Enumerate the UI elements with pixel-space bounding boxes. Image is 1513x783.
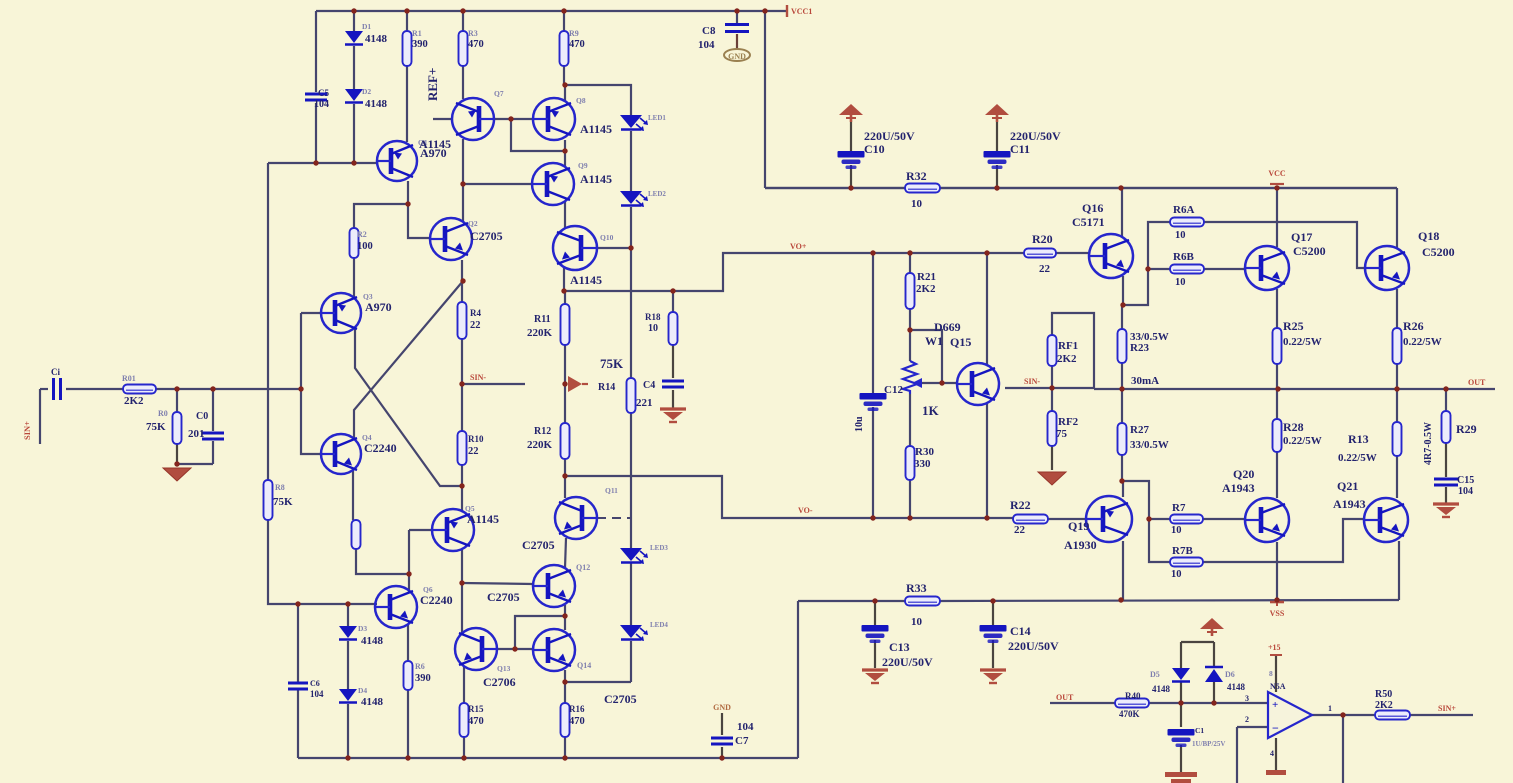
svg-text:4148: 4148 [361,696,384,708]
svg-text:470: 470 [569,39,585,50]
wire VCC rail drop to Q18 [1396,188,1398,248]
svg-text:Q16: Q16 [1082,201,1103,215]
svg-text:C4: C4 [643,380,655,391]
ground bar under C1 [1165,772,1197,777]
svg-text:10u: 10u [854,416,865,432]
svg-text:R4: R4 [470,308,481,318]
wire Q11 collector [564,476,566,498]
wire R30 to VO- rail [909,480,911,518]
svg-text:Q12: Q12 [576,563,590,572]
svg-text:10: 10 [1171,525,1182,536]
wire R22 leads [1048,518,1087,520]
svg-text:221: 221 [636,397,653,409]
ground arrow above diodes D5 D6 [1200,618,1224,636]
wire Q8-Q9 column [564,140,566,167]
resistor RF2 [1048,411,1057,446]
resistor R20 [1024,249,1056,258]
wire R13 leads [1396,389,1398,422]
wire R2 to Q3 [353,258,355,298]
svg-text:220U/50V: 220U/50V [882,655,933,669]
diode D4 [339,689,357,703]
svg-text:220U/50V: 220U/50V [1008,639,1059,653]
svg-text:D5: D5 [1150,670,1160,679]
wire R6 to bottom rail [407,690,409,758]
transistor Q7 [452,98,494,140]
wire output feedback drop [1342,715,1344,783]
potentiometer W1 [903,361,917,394]
svg-text:R15: R15 [468,704,484,714]
svg-text:GND: GND [728,52,746,61]
svg-text:R2: R2 [357,230,367,239]
svg-text:Q10: Q10 [600,233,614,242]
resistor R4 [458,302,467,339]
svg-text:22: 22 [1014,524,1026,536]
svg-text:A1943: A1943 [1222,481,1255,495]
diode D6 reversed [1205,667,1223,682]
wire op-amp inverting input [1237,726,1267,728]
power bar under op-amp pin4 [1266,770,1286,775]
svg-text:C5200: C5200 [1293,244,1326,258]
svg-text:+: + [1272,699,1278,711]
wire R4-R10 column [461,339,463,431]
LED LED4 [620,625,648,641]
wire Q14 emitter to LED column [565,681,631,683]
svg-text:A1943: A1943 [1333,497,1366,511]
wire Q5-Q13 column [461,583,463,633]
junction dots [351,8,356,13]
wire R26 to OUT rail [1396,364,1398,389]
resistor R11 [561,304,570,345]
wire D3-D4 column [347,604,349,626]
wire bottom rail riser [797,601,799,758]
svg-text:C1: C1 [1195,726,1204,735]
LED LED3 [620,548,648,564]
svg-text:R50: R50 [1375,689,1392,700]
transistor Q1 [377,141,417,181]
wire R15 to bottom rail [463,737,465,758]
svg-text:A970: A970 [365,300,392,314]
resistor R27 [1118,423,1127,455]
wire Q17 emitter to R25 [1276,289,1278,328]
wire R11 leads [564,291,566,304]
svg-text:D3: D3 [358,624,367,633]
wire R18-C4 link [672,345,674,378]
svg-text:C8: C8 [702,25,716,37]
svg-text:4148: 4148 [1152,684,1171,694]
svg-text:A1145: A1145 [419,137,451,151]
svg-text:Q21: Q21 [1337,479,1358,493]
svg-text:RF2: RF2 [1058,416,1079,428]
ground flag GND under C8 [724,49,750,61]
wire VO- upper jog [565,476,1013,518]
svg-text:330: 330 [914,458,931,470]
svg-text:75K: 75K [600,356,624,371]
wire C1 to ground bar [1180,745,1182,772]
LED LED1 [620,115,648,131]
svg-text:C14: C14 [1010,624,1031,638]
transistor Q2 [430,218,472,260]
svg-text:VSS: VSS [1270,609,1285,618]
ground under C4 [660,409,686,422]
svg-text:R40: R40 [1125,691,1141,701]
wire Q1 base row [268,162,377,164]
wire D1-D2 column [353,11,355,31]
wire Q5 base link [409,529,432,531]
svg-text:2: 2 [1245,715,1249,724]
svg-text:LED4: LED4 [650,621,668,629]
resistor R10 [458,431,467,465]
svg-text:470: 470 [569,716,585,727]
svg-text:LED3: LED3 [650,544,668,552]
transistor Q14 [533,629,575,671]
wire op-amp +15 stem [1275,655,1277,692]
wire D5 column [1180,642,1182,668]
power arrow above C11 [985,104,1009,122]
capacitor C15 [1434,479,1458,485]
wire left column to C5 [315,11,317,92]
svg-text:1U/BP/25V: 1U/BP/25V [1192,740,1225,748]
svg-text:D1: D1 [362,22,371,31]
svg-text:R14: R14 [598,382,615,393]
resistor R3 [459,31,468,66]
svg-text:OUT: OUT [1468,378,1486,387]
svg-text:C2705: C2705 [604,692,637,706]
svg-text:VO-: VO- [798,506,813,515]
diode D5 [1172,668,1190,682]
LED LED2 [620,191,648,207]
svg-text:C12: C12 [884,384,903,396]
svg-text:R9: R9 [569,29,579,38]
transistor Q17 [1245,246,1289,290]
svg-text:VO+: VO+ [790,242,807,251]
svg-text:390: 390 [415,673,431,684]
svg-text:10: 10 [1175,277,1186,288]
svg-text:75K: 75K [146,421,166,433]
wire R16 leads [564,682,566,703]
svg-text:Q15: Q15 [950,335,971,349]
transistor Q4 [321,434,361,474]
svg-text:Q8: Q8 [576,96,586,105]
op-amp U1 [1268,692,1312,738]
svg-text:R29: R29 [1456,422,1477,436]
transistor Q3 [321,293,361,333]
ground under C14 [980,670,1006,683]
svg-text:Q11: Q11 [605,486,618,495]
svg-text:C10: C10 [864,142,885,156]
wire Q16 emitter jog to R6B row [1122,276,1124,305]
wire Q4 emitter to R5 [352,470,354,520]
wire C15 to ground [1445,487,1447,503]
wire Q20 emitter to VSS rail [1276,542,1278,600]
svg-text:Q9: Q9 [578,161,588,170]
VSS power flag [1270,601,1284,604]
resistor R33 [905,597,940,606]
svg-text:220K: 220K [527,439,553,451]
svg-text:R32: R32 [906,169,927,183]
wire input stub SIN+ [40,388,48,390]
transistor Q21 [1364,498,1408,542]
transistor Q11 [555,497,597,539]
svg-text:VCC1: VCC1 [791,7,812,16]
resistor R50 [1375,711,1410,720]
wire R7B to Q21 base [1203,519,1364,562]
capacitor C13 [862,625,889,643]
resistor R1 [403,31,412,66]
label VCC flag [1270,183,1284,185]
wire Q9 base row [463,183,532,185]
wire C11 column [996,122,998,152]
svg-text:1: 1 [1328,704,1332,713]
resistor R29 [1442,411,1451,443]
resistor R13 [1393,422,1402,456]
wire Q18 emitter to R26 [1396,289,1398,328]
svg-text:Q2: Q2 [468,219,478,228]
wire D6 column [1213,642,1215,667]
svg-text:104: 104 [1458,486,1473,497]
svg-text:LED2: LED2 [648,190,666,198]
wire C13 column [874,601,876,625]
svg-text:R01: R01 [122,374,136,383]
wire R3-Q7-Q2 column [462,139,464,222]
svg-text:SIN+: SIN+ [22,421,32,440]
svg-text:22: 22 [468,446,479,457]
resistor R01 [123,385,156,394]
wire LED column mid [630,413,632,548]
wire Q17 collector [1276,188,1278,247]
svg-text:Ci: Ci [51,367,60,377]
resistor R21 [906,273,915,309]
svg-text:4: 4 [1270,749,1274,758]
svg-text:201: 201 [188,428,205,440]
svg-text:Q14: Q14 [577,661,591,670]
wire R25 to OUT rail [1276,364,1278,389]
ground under R0 [163,468,191,481]
wire VCC rail [765,187,1397,189]
svg-text:R0: R0 [158,409,168,418]
svg-text:1K: 1K [922,403,940,418]
resistor R23 [1118,329,1127,363]
svg-text:R7B: R7B [1172,545,1193,557]
wire VSS rail riser to Q21 [1398,541,1400,600]
svg-text:Q20: Q20 [1233,467,1254,481]
svg-text:C0: C0 [196,411,208,422]
svg-text:C2705: C2705 [470,229,503,243]
capacitor C8 [725,25,749,32]
transistor Q16 [1089,234,1133,278]
svg-text:SIN-: SIN- [470,373,486,382]
svg-text:A1930: A1930 [1064,538,1097,552]
svg-text:R27: R27 [1130,424,1149,436]
svg-text:C2705: C2705 [487,590,520,604]
wire Q7 base stub [433,118,452,120]
wire RF1-RF2 link [1051,366,1053,411]
svg-text:Q18: Q18 [1418,229,1439,243]
wire SIN- stub [462,383,525,385]
wire OUT rail [1094,388,1495,390]
svg-text:A1145: A1145 [580,122,612,136]
resistor R5 [352,520,361,549]
wire R10 to node [461,465,463,511]
wire bottom rail [298,757,798,759]
svg-text:R13: R13 [1348,432,1369,446]
svg-text:LED1: LED1 [648,114,666,122]
wire R6A to Q18 base [1204,222,1365,268]
wire Q19 collector to VSS rail [1122,541,1124,600]
wire R12 leads [564,384,566,423]
svg-text:R8: R8 [275,483,285,492]
wire R1 leads [406,11,408,31]
svg-text:33/0.5W: 33/0.5W [1130,439,1169,451]
svg-text:R12: R12 [534,426,551,437]
resistor R18 [669,312,678,345]
svg-text:2K2: 2K2 [1375,700,1393,711]
wire C4 to ground [672,390,674,409]
wire R23 column [1121,305,1123,329]
svg-text:R18: R18 [645,312,661,322]
svg-text:104: 104 [314,99,329,110]
net arrow at R11-R12 node [568,376,582,392]
wire Q11 base dashes [597,517,631,519]
svg-text:SIN+: SIN+ [1438,704,1456,713]
svg-text:R22: R22 [1010,498,1031,512]
capacitor C6 [288,683,308,689]
resistor R25 [1273,328,1282,364]
svg-text:C5200: C5200 [1422,245,1455,259]
svg-text:GND: GND [713,703,731,712]
svg-text:D6: D6 [1225,670,1235,679]
svg-text:104: 104 [310,689,324,699]
wire C0-R0 gnd link [177,463,213,465]
svg-text:D2: D2 [362,87,371,96]
wire Q10 bottom lead [563,267,565,291]
svg-text:R7: R7 [1172,502,1186,514]
ground under RF2 [1038,472,1066,485]
resistor R7B [1170,558,1203,567]
svg-text:75: 75 [1056,428,1068,440]
resistor R22 [1013,515,1048,524]
wire Q19 base jog to R7/R7B [1122,481,1170,562]
wire W1 branch [910,330,942,383]
transistor Q10 [553,226,597,270]
capacitor C10 [838,151,865,169]
svg-text:C2705: C2705 [522,538,555,552]
transistor Q15 [957,363,999,405]
capacitor C14 [980,625,1007,643]
wire R29 leads [1445,389,1447,411]
capacitor C5 [305,94,327,100]
wire op-amp output [1311,714,1375,716]
wire Q14 emitter [564,670,566,682]
transistor Q5 [432,509,474,551]
label VCC1 flag [786,5,788,17]
svg-text:R11: R11 [534,314,551,325]
resistor R2 [350,228,359,258]
capacitor C11 [984,151,1011,169]
wire Q1 collector to Q2 base [408,181,430,238]
wire C1 link [1180,703,1182,727]
svg-text:R25: R25 [1283,319,1304,333]
resistor R32 [905,184,940,193]
transistor Q13 [455,628,497,670]
wire C12 column [872,253,874,393]
wire R0 leads [176,389,178,412]
resistor R9 [560,31,569,66]
resistor R16 [561,703,570,737]
wire Q2 emitter [461,260,463,302]
svg-text:22: 22 [1039,263,1051,275]
diode D1 [345,31,363,45]
svg-text:R16: R16 [569,704,585,714]
wire C0 leads [212,389,214,431]
wire Q15 collector [986,253,988,366]
svg-text:2K2: 2K2 [1057,353,1077,365]
capacitor C12 [860,393,887,411]
wire Q6 emitter to R6 [407,624,409,661]
wire Q10 emitter row [597,247,631,249]
wire SIN- feedback row [1005,387,1094,389]
wire R28 leads [1276,389,1278,419]
wire top VCC1 rail [316,10,787,12]
svg-text:C7: C7 [735,735,749,747]
svg-text:+15: +15 [1268,643,1281,652]
wire W1 bottom to R30 [909,394,911,446]
wire R5 to Q5 base [356,549,409,574]
wire LED column lower [630,562,632,625]
transistor Q18 [1365,246,1409,290]
capacitor C1 [1168,729,1195,747]
wire RF1 top loop [1052,313,1094,389]
wire input row [66,388,123,390]
svg-text:4148: 4148 [365,98,388,110]
power arrow above C10 [839,104,863,122]
svg-text:C2240: C2240 [364,441,397,455]
svg-text:R10: R10 [468,434,484,444]
wire VCC1 riser [764,11,766,188]
svg-text:390: 390 [412,39,428,50]
svg-text:100: 100 [357,241,373,252]
svg-text:OUT: OUT [1056,693,1074,702]
wire Q5 emitter to Q12 base row [461,549,463,583]
wire Q15 emitter [986,402,988,518]
resistor R6A [1170,218,1204,227]
svg-text:Q13: Q13 [497,664,511,673]
svg-text:VCC: VCC [1268,169,1286,178]
svg-text:0.22/5W: 0.22/5W [1283,435,1322,447]
ground under C13 [862,670,888,683]
resistor R7 [1170,515,1203,524]
svg-text:22: 22 [470,320,481,331]
svg-text:R21: R21 [917,271,936,283]
svg-text:R23: R23 [1130,342,1149,354]
svg-text:R28: R28 [1283,420,1304,434]
svg-text:10: 10 [1175,230,1186,241]
transistor Q20 [1245,498,1289,542]
svg-text:A1145: A1145 [580,172,612,186]
svg-text:C5171: C5171 [1072,215,1105,229]
svg-text:R6A: R6A [1173,204,1194,216]
capacitor Ci [54,378,61,400]
svg-text:4148: 4148 [365,33,388,45]
svg-text:104: 104 [737,721,754,733]
svg-text:W1: W1 [925,334,943,348]
svg-text:470K: 470K [1119,709,1140,719]
wire C6 column [297,604,299,682]
svg-text:N5A: N5A [1270,682,1286,691]
transistor Q9 [532,163,574,205]
wire diagonal node to Q4 [354,281,463,439]
transistor Q12 [533,565,575,607]
svg-text:R3: R3 [468,29,478,38]
